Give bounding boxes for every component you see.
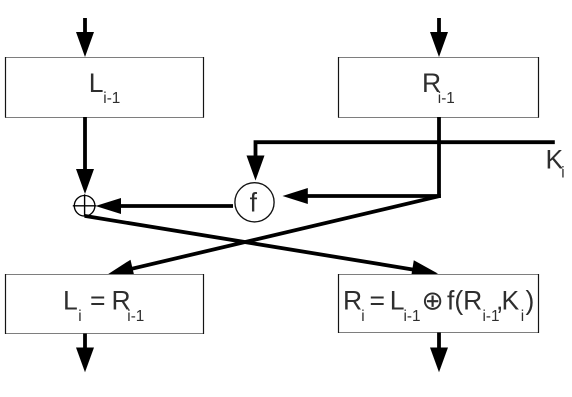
box L_i = R_{i-1}: [5, 274, 204, 334]
svg-text:i-1: i-1: [103, 90, 120, 107]
svg-text:): ): [526, 286, 535, 316]
svg-text:i: i: [521, 308, 524, 325]
svg-text:f(R: f(R: [447, 286, 482, 316]
cross wire XOR to R_i: [85, 216, 438, 279]
svg-text:⊕: ⊕: [422, 286, 444, 316]
arrow into R_{i-1}: [430, 18, 448, 57]
label K_i: [546, 145, 565, 182]
cross wire R_{i-1} to L_i: [107, 196, 439, 277]
op f circle: [235, 183, 274, 222]
svg-text:L: L: [89, 68, 104, 98]
wire R_{i-1} down: [437, 117, 441, 198]
key line K_i: [247, 142, 555, 180]
svg-text:=: =: [90, 286, 105, 316]
arrow into f from R wire: [283, 188, 441, 204]
svg-text:i: i: [78, 308, 81, 325]
box R_{i-1}: [338, 57, 539, 118]
svg-text:R: R: [343, 286, 362, 316]
svg-text:K: K: [502, 286, 520, 316]
box R_i = L_{i-1} xor f(R_{i-1},K_i): [338, 274, 539, 333]
arrow into L_{i-1}: [76, 18, 94, 57]
output arrow from L_i: [76, 334, 94, 373]
svg-text:=: =: [370, 286, 385, 316]
wire L_{i-1} to XOR with arrow: [76, 117, 94, 194]
svg-text:f: f: [250, 188, 258, 218]
svg-text:i-1: i-1: [438, 90, 455, 107]
box L_{i-1}: [5, 57, 204, 118]
svg-text:i: i: [561, 165, 564, 182]
output arrow from R_i: [430, 333, 448, 373]
arrow f to XOR: [96, 198, 234, 214]
svg-text:i-1: i-1: [127, 308, 144, 325]
svg-text:i: i: [361, 308, 364, 325]
XOR node: [73, 194, 97, 216]
svg-text:L: L: [63, 286, 78, 316]
svg-text:i-1: i-1: [404, 308, 421, 325]
svg-text:L: L: [390, 286, 405, 316]
